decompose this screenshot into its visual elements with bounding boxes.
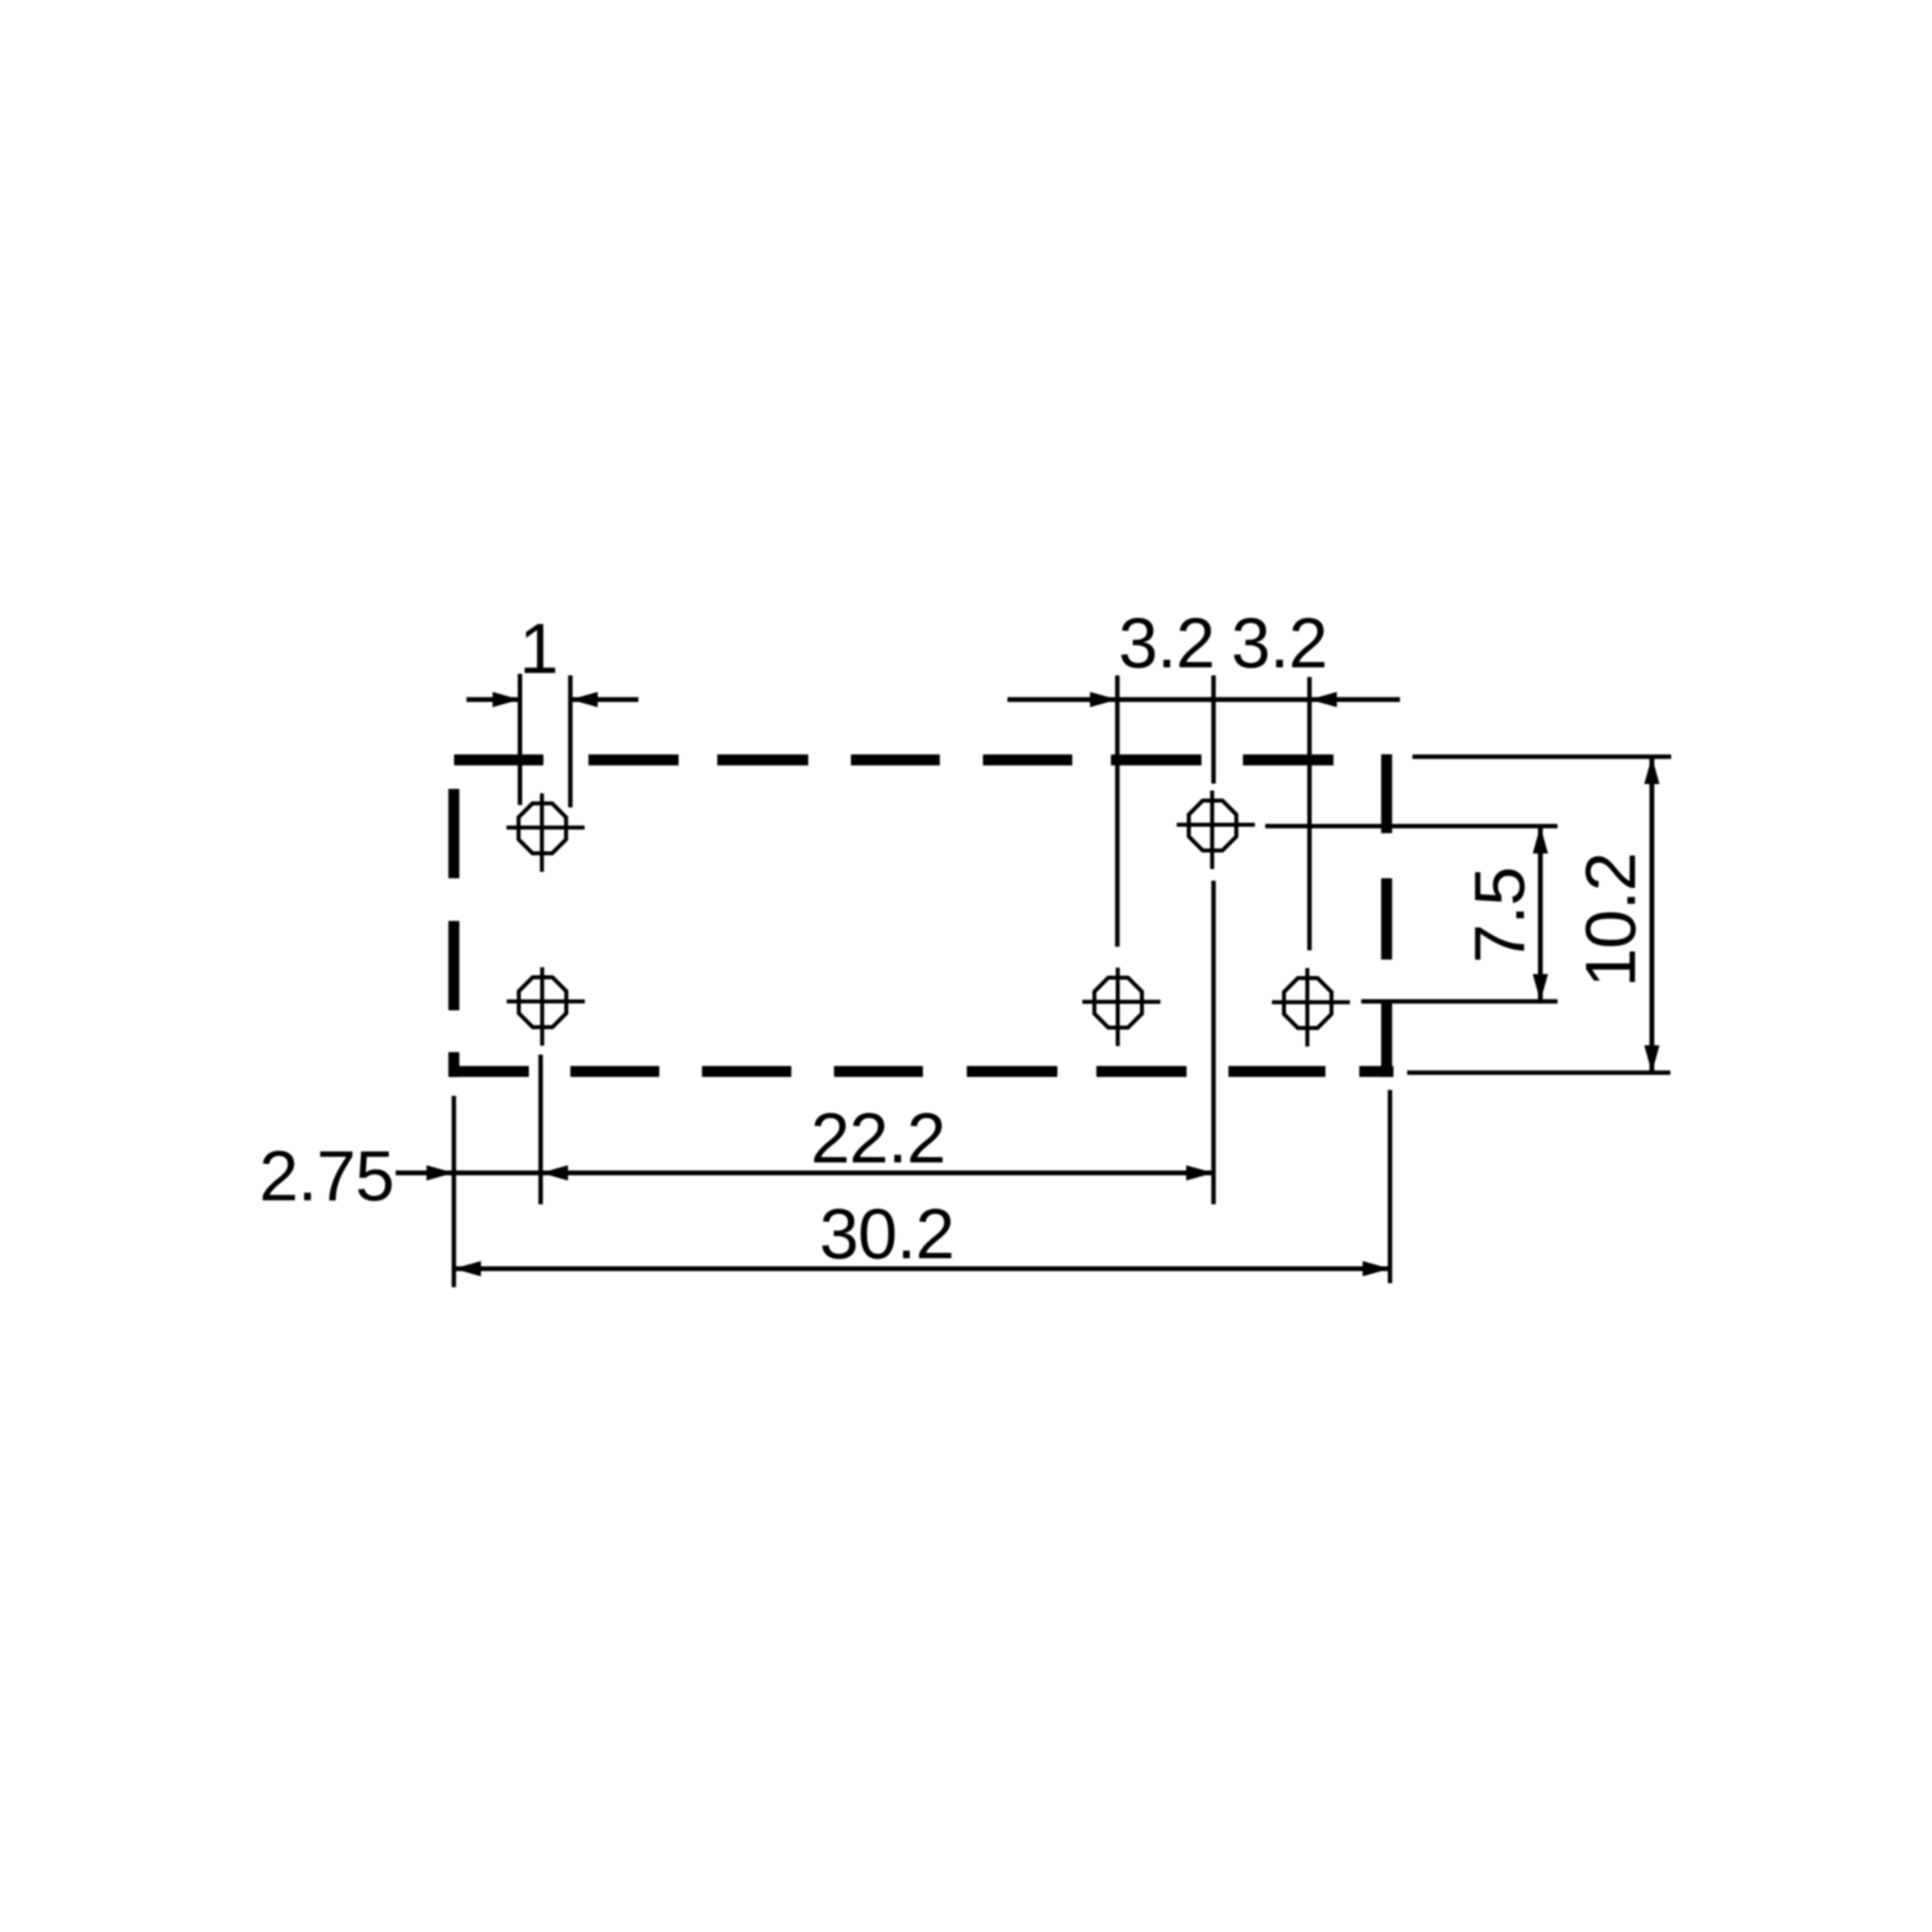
- pin hole 1 (top-left): [506, 794, 584, 873]
- pin hole 4 (bottom-middle-right): [1083, 968, 1161, 1046]
- svg-text:7.5: 7.5: [1459, 867, 1539, 963]
- hole column extension line (for 2.75 and 22.2): [539, 1055, 543, 1204]
- dimension "3.2 3.2" right arrow (pointing left): [1310, 692, 1337, 708]
- dimension "3.2 3.2" middle extension line: [1212, 675, 1216, 784]
- dimension "22.2" right arrow (pointing right): [1187, 1166, 1214, 1181]
- dimension "7.5" top arrow (pointing up): [1533, 826, 1548, 853]
- dimension "7.5" bottom extension line: [1361, 999, 1558, 1004]
- dimension "10.2" bottom extension line: [1407, 1071, 1670, 1075]
- dimension "3.2 3.2" left extension line: [1115, 675, 1120, 947]
- dimension "3.2 3.2" left arrow (pointing right): [1090, 692, 1117, 708]
- dimension "1" left arrow (pointing right): [493, 692, 520, 708]
- svg-text:22.2: 22.2: [811, 1098, 945, 1178]
- dimension "1" left extension line: [518, 674, 522, 805]
- dimension "30.2" left arrow (pointing left): [454, 1261, 481, 1277]
- left edge extension line (for 2.75 and 30.2): [452, 1096, 456, 1287]
- dimension "1" line right tail: [571, 697, 639, 702]
- dimension "2.75"/"22.2" shared line: [396, 1170, 1214, 1175]
- relay outline right edge (dashed): [1381, 754, 1393, 1077]
- right edge extension line (for 30.2): [1388, 1090, 1393, 1283]
- dimension "30.2" line: [454, 1266, 1390, 1271]
- pin hole 3 (top-right): [1177, 791, 1255, 869]
- svg-text:30.2: 30.2: [819, 1194, 954, 1274]
- dimension "7.5" top extension line: [1265, 824, 1558, 829]
- svg-text:2.75: 2.75: [259, 1136, 394, 1216]
- dimension "7.5" line: [1538, 826, 1543, 1001]
- right hole column extension line (for 22.2): [1212, 881, 1216, 1204]
- dimension "2.75" arrow at left edge (pointing right): [427, 1166, 454, 1181]
- dimension "3.2 3.2" line: [1008, 697, 1401, 702]
- pin hole 2 (bottom-left): [507, 968, 585, 1046]
- dimension "1" right arrow (pointing left): [571, 692, 598, 708]
- dimension "1" line left tail: [467, 697, 520, 702]
- svg-text:3.2: 3.2: [1118, 603, 1214, 683]
- dimension "22.2" left arrow (pointing left): [541, 1166, 568, 1181]
- dimension "1" right extension line: [568, 675, 573, 807]
- dimension "30.2" right arrow (pointing right): [1363, 1261, 1390, 1277]
- svg-text:10.2: 10.2: [1571, 852, 1650, 987]
- svg-text:3.2: 3.2: [1231, 603, 1327, 683]
- dimension "7.5" bottom arrow (pointing down): [1533, 974, 1548, 1001]
- relay outline bottom edge (dashed): [449, 1066, 1394, 1077]
- dimension "3.2 3.2" right extension line: [1307, 677, 1312, 951]
- relay outline left edge (dashed): [448, 789, 460, 1077]
- relay outline top edge (dashed): [454, 754, 1334, 766]
- dimension "10.2" line: [1649, 757, 1654, 1073]
- pin hole 5 (bottom-right): [1272, 968, 1350, 1047]
- dimension "10.2" bottom arrow (pointing down): [1645, 1046, 1660, 1073]
- dimension "10.2" top arrow (pointing up): [1645, 757, 1660, 784]
- dimension "10.2" top extension line: [1413, 754, 1672, 759]
- svg-text:1: 1: [519, 609, 558, 688]
